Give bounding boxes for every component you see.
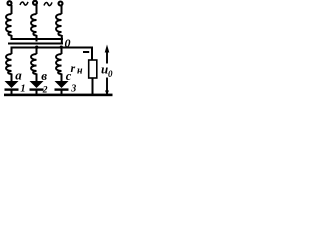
wire terminal C to primary 3 xyxy=(61,5,63,14)
secondary winding 1 xyxy=(6,54,11,74)
svg-text:a: a xyxy=(15,68,22,83)
voltage arrow u_d shaft lower xyxy=(106,78,108,96)
svg-text:н: н xyxy=(77,66,83,77)
diode 2 (anode triangle) xyxy=(30,81,44,88)
svg-text:1: 1 xyxy=(20,83,25,94)
wire secondary 3 to diode 3 xyxy=(61,74,63,82)
minus polarity mark xyxy=(83,51,89,53)
wire primary 1 to star line xyxy=(11,35,13,39)
terminal B (phase b input) xyxy=(33,1,37,5)
tilde ~ between terminals b,c xyxy=(44,2,52,5)
wire secondary 1 to diode 1 xyxy=(11,74,13,82)
diode 3 (anode triangle) xyxy=(55,81,69,88)
primary winding 2 xyxy=(31,14,36,36)
wire primary 2 to star line (overshoot tick) xyxy=(36,35,38,42)
diode 2 cathode bar xyxy=(30,88,44,90)
svg-text:0: 0 xyxy=(108,69,113,79)
wire primary 3 down to core (right end) xyxy=(61,35,63,44)
svg-text:r: r xyxy=(71,61,76,75)
terminal C (phase c input) xyxy=(59,2,63,6)
voltage arrow u_d shaft upper xyxy=(106,50,108,64)
diode 3 cathode bar xyxy=(55,88,69,90)
wire secondary 1 from star line xyxy=(11,47,13,54)
voltage arrow u_d head (up) xyxy=(105,45,110,53)
secondary winding 3 xyxy=(56,54,61,74)
primary star line xyxy=(11,38,64,40)
cathode bus xyxy=(4,94,113,97)
secondary winding 2 xyxy=(31,54,36,74)
wire diode 2 to bus xyxy=(36,90,38,95)
diode 1 cathode bar xyxy=(5,88,19,90)
diode 1 (anode triangle) xyxy=(5,81,19,88)
wire resistor to bus xyxy=(92,78,94,95)
wire diode 1 to bus xyxy=(11,90,13,95)
wire terminal A to primary 1 xyxy=(11,5,13,14)
junction dot secondary 2 / star line xyxy=(35,46,38,49)
secondary star line xyxy=(11,47,94,49)
junction dot secondary 3 / star line xyxy=(60,46,63,49)
svg-text:3: 3 xyxy=(70,84,76,95)
svg-text:в: в xyxy=(41,68,47,83)
wire secondary 3 from star line xyxy=(61,47,63,54)
wire secondary 2 to diode 2 xyxy=(36,74,38,82)
wire terminal B to primary 2 xyxy=(36,5,38,14)
voltage arrow u_d tail tick at bus xyxy=(105,91,109,96)
wire star line corner to load xyxy=(91,47,93,60)
load resistor r_n body xyxy=(89,60,97,78)
primary winding 3 xyxy=(56,14,61,36)
wire diode 3 to bus xyxy=(61,90,63,95)
primary winding 1 xyxy=(6,14,11,36)
transformer core xyxy=(8,43,63,45)
terminal A (phase a input) xyxy=(8,1,12,5)
wire secondary 2 from star line xyxy=(36,47,38,54)
tilde ~ between terminals a,b xyxy=(20,2,28,5)
